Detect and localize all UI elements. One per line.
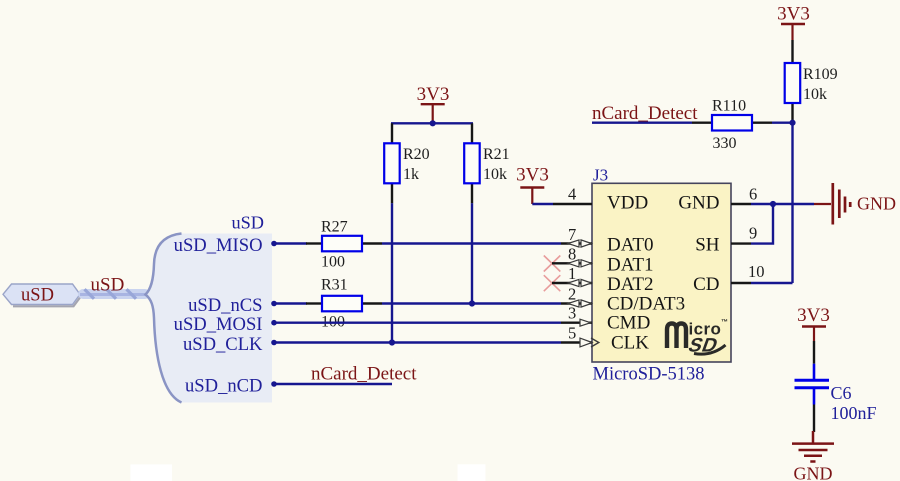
wire 3V3 to pin4 (532, 203, 553, 205)
pin 7 lead (561, 242, 592, 244)
R21 body (464, 143, 480, 183)
harness entry MISO (271, 241, 277, 247)
wire MOSI harness to pin3 (273, 322, 561, 324)
svg-text:C6: C6 (831, 383, 852, 403)
svg-text:R31: R31 (321, 277, 348, 294)
resistor R21 (464, 123, 509, 203)
pin 8 bidir arrows (568, 260, 591, 267)
C6 top plate (795, 379, 830, 382)
svg-text:GND: GND (794, 463, 833, 481)
harness entry CLK (271, 340, 277, 346)
svg-text:uSD_MOSI: uSD_MOSI (174, 314, 263, 335)
svg-text:™: ™ (721, 319, 728, 326)
R110 pin 2 lead (752, 121, 772, 123)
svg-text:3V3: 3V3 (516, 165, 549, 186)
pin 9 lead (731, 242, 751, 244)
svg-text:10k: 10k (483, 166, 507, 183)
resistor R110 (692, 98, 772, 152)
R110 body (712, 115, 752, 131)
pin 7 bidir arrows (568, 240, 591, 247)
R109 pin 2 lead (791, 103, 793, 123)
svg-text:5: 5 (568, 324, 576, 343)
pin 3 input arrow (580, 319, 591, 326)
svg-text:3: 3 (568, 304, 576, 323)
capacitor C6 (795, 341, 877, 432)
wire R21 to nCS (471, 203, 473, 303)
junction GND/SH (770, 201, 776, 207)
pin 5 input arrow (580, 338, 592, 347)
svg-text:R21: R21 (483, 146, 510, 163)
power 3V3 (R20/R21 node) (417, 84, 450, 123)
svg-text:3V3: 3V3 (417, 84, 450, 105)
resistor R27 (306, 219, 382, 271)
wire pin6 to GND symbol (751, 203, 814, 205)
junction R20/CLK (389, 339, 395, 345)
R27 pin 1 lead (306, 242, 322, 244)
R21 pin 2 lead (471, 183, 473, 203)
svg-text:4: 4 (568, 185, 576, 204)
pin 1 bidir arrows (568, 279, 591, 286)
R20 pin 2 lead (391, 183, 393, 203)
wire nCD harness stub (273, 383, 392, 385)
no-ERC cross pin 8 (544, 256, 561, 272)
connector J3 body (592, 183, 731, 362)
svg-text:CLK: CLK (611, 332, 649, 353)
signal harness body uSD (146, 234, 273, 403)
svg-text:R27: R27 (321, 219, 348, 236)
svg-text:10k: 10k (803, 86, 827, 103)
svg-text:uSD_CLK: uSD_CLK (183, 334, 263, 355)
svg-text:R109: R109 (803, 66, 838, 83)
power 3V3 (pin 4) (516, 165, 549, 205)
svg-text:J3: J3 (593, 166, 608, 185)
svg-text:100nF: 100nF (831, 403, 877, 423)
bus uSD (78, 289, 150, 299)
svg-text:uSD_nCS: uSD_nCS (188, 295, 262, 316)
svg-text:nCard_Detect: nCard_Detect (592, 103, 698, 124)
wire pin10 to R109 column (751, 282, 793, 284)
MicroSD logo (667, 319, 728, 356)
signal harness brace (146, 234, 182, 403)
pin 6 lead (731, 203, 751, 205)
wire nCard_Detect to R110 (592, 121, 692, 123)
svg-text:MicroSD-5138: MicroSD-5138 (593, 365, 705, 385)
pin 8 lead (552, 262, 592, 264)
wire SH up to GND net (751, 204, 773, 244)
harness entry nCS (271, 301, 277, 307)
wire nCS R31 to pin2 (382, 302, 561, 304)
C6 pin 2 lead (813, 389, 816, 405)
svg-text:CD: CD (693, 274, 719, 295)
svg-text:SH: SH (695, 235, 720, 256)
svg-text:uSD: uSD (91, 275, 125, 296)
ground GND (C6) (792, 431, 834, 462)
svg-text:GND: GND (857, 194, 896, 214)
power 3V3 (C6) (797, 305, 830, 341)
svg-text:uSD: uSD (21, 286, 54, 306)
svg-text:1k: 1k (403, 166, 419, 183)
R20 body (384, 143, 400, 183)
svg-text:DAT2: DAT2 (607, 274, 653, 295)
svg-text:330: 330 (713, 135, 737, 152)
pin 5 lead (561, 341, 592, 343)
wire nCS harness to R31 (273, 302, 307, 304)
svg-text:DAT0: DAT0 (607, 235, 653, 256)
svg-text:100: 100 (321, 254, 345, 271)
svg-text:10: 10 (748, 262, 765, 281)
pin 2 bidir arrows (568, 300, 591, 307)
wire R110 to junction (772, 121, 793, 123)
svg-text:DAT1: DAT1 (607, 254, 653, 275)
resistor R20 (384, 123, 429, 203)
svg-text:nCard_Detect: nCard_Detect (311, 364, 417, 385)
R109 pin 1 lead (791, 40, 793, 63)
resistor R109 (785, 40, 838, 123)
svg-text:R20: R20 (403, 146, 430, 163)
wire 3V3 node horizontal (391, 122, 473, 124)
pin 2 lead (561, 302, 592, 304)
C6 pin 1 lead (813, 341, 815, 364)
R21 pin 1 lead (471, 123, 473, 143)
svg-text:uSD_MISO: uSD_MISO (174, 235, 263, 256)
pin 3 lead (561, 322, 592, 324)
no-ERC cross pin 1 (544, 275, 561, 291)
port uSD (3, 284, 82, 306)
junction R21/nCS (469, 300, 475, 306)
harness entry MOSI (271, 320, 277, 326)
power 3V3 (R109) (777, 4, 810, 41)
pin 4 lead (553, 203, 592, 205)
pin 1 lead (552, 282, 592, 284)
svg-text:9: 9 (749, 224, 757, 243)
svg-text:3V3: 3V3 (797, 305, 830, 326)
R31 pin 1 lead (306, 302, 322, 304)
svg-text:uSD: uSD (231, 213, 264, 233)
R31 pin 2 lead (362, 302, 382, 304)
pin 10 lead (731, 282, 751, 284)
R27 pin 2 lead (362, 242, 382, 244)
svg-text:VDD: VDD (607, 193, 648, 214)
harness entry nCD (271, 381, 277, 387)
R27 body (322, 236, 362, 252)
C6 bottom plate (795, 386, 830, 389)
svg-text:uSD_nCD: uSD_nCD (185, 376, 263, 397)
wire R20 to CLK (391, 203, 393, 342)
svg-text:CD/DAT3: CD/DAT3 (607, 294, 685, 315)
R110 pin 1 lead (692, 121, 712, 123)
junction 3V3 node (430, 120, 436, 126)
wire CLK harness to pin5 (273, 341, 561, 343)
R31 body (322, 296, 362, 312)
svg-text:6: 6 (749, 185, 757, 204)
svg-text:3V3: 3V3 (777, 4, 810, 25)
wire MISO R27 to pin7 (382, 242, 561, 244)
resistor R31 (306, 277, 382, 331)
wire R109 down to pin10 (791, 123, 793, 283)
R20 pin 1 lead (391, 123, 393, 143)
svg-text:R110: R110 (712, 98, 746, 115)
R109 body (785, 63, 801, 103)
ground GND (right) (814, 183, 850, 225)
wire MISO harness to R27 (273, 242, 307, 244)
svg-text:CMD: CMD (607, 313, 650, 334)
svg-text:GND: GND (678, 193, 719, 214)
pin 5 clock mark (591, 338, 599, 347)
junction R109/R110 (789, 120, 795, 126)
